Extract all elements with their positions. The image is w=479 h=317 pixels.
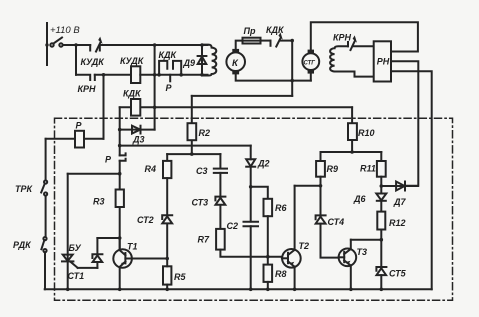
wire branch vertical to KRN contact row xyxy=(75,45,77,75)
svg-text:R12: R12 xyxy=(389,218,406,228)
inductor coil (K relay coil, right of D9) xyxy=(202,45,216,76)
wire T3 collector to R12 node xyxy=(351,239,381,241)
svg-text:СТ5: СТ5 xyxy=(389,269,407,279)
svg-text:R4: R4 xyxy=(145,164,157,174)
svg-text:Р: Р xyxy=(76,121,83,131)
svg-text:Т3: Т3 xyxy=(357,247,368,257)
wire R10 bottom to R9 and R11 xyxy=(321,151,382,153)
zener ST3 xyxy=(216,198,226,205)
zener ST5 xyxy=(377,268,387,275)
wire from switch to contact column xyxy=(63,44,90,46)
wire to BU xyxy=(68,173,120,175)
wire fuse to KDK contact xyxy=(261,40,271,42)
svg-text:ТРК: ТРК xyxy=(15,184,34,194)
svg-text:+110 В: +110 В xyxy=(50,25,80,36)
capacitor C3 branch xyxy=(219,154,221,168)
junction dots second row xyxy=(102,73,106,77)
resistor R4 branch xyxy=(166,154,168,161)
svg-text:Д2: Д2 xyxy=(257,159,270,169)
svg-text:R3: R3 xyxy=(93,197,105,207)
relay coil KRN (inductor with left bumps) xyxy=(330,46,348,71)
svg-text:РДК: РДК xyxy=(13,240,32,250)
contact KDK (near motor, with arrow) xyxy=(270,41,272,46)
contact KDK/P (double hook contact) xyxy=(159,61,167,75)
vertical chain x=119.7 (node, P contact, R3) xyxy=(119,107,121,155)
wire D2 node to R6 xyxy=(251,187,268,199)
generator STG circle xyxy=(302,53,319,70)
diode D9 (vertical, pointing up) xyxy=(201,45,203,75)
svg-text:СТ3: СТ3 xyxy=(192,198,209,208)
wire ST1 top to T1 collector node xyxy=(97,237,119,239)
diode D7 wire xyxy=(381,185,418,187)
relay box RN xyxy=(374,41,391,81)
zener ST4 xyxy=(320,186,322,216)
wire ST4 to T3 base xyxy=(321,224,339,258)
contact P (in vertical wire) xyxy=(120,153,126,155)
wire motor K bottom to STG bottom xyxy=(236,74,311,80)
equipment boundary frame (dash-dot) xyxy=(55,118,453,300)
wire between TRK and RDK xyxy=(45,196,47,237)
resistor R5 xyxy=(163,266,171,284)
wire RDK down to bottom bus xyxy=(44,252,46,289)
resistor R6 xyxy=(264,199,273,216)
svg-text:СТ1: СТ1 xyxy=(68,271,85,281)
wire T2 collector to R9/ST4 node xyxy=(295,185,321,187)
RN box output stub bottom xyxy=(391,71,432,289)
svg-text:R2: R2 xyxy=(199,128,211,138)
relay coil KDK (on long wire) xyxy=(131,99,140,116)
resistor R12 xyxy=(377,212,385,230)
svg-text:R8: R8 xyxy=(275,269,287,279)
svg-text:КРН: КРН xyxy=(78,84,97,94)
resistor R9 xyxy=(320,152,322,161)
svg-text:КДК: КДК xyxy=(123,89,142,99)
wire coil bottom continues xyxy=(335,71,355,73)
contact KRN (with arrow) xyxy=(347,42,349,46)
transistor T1 xyxy=(113,249,132,268)
wire through relay coil P xyxy=(46,138,104,140)
wire W2 to diode D2 xyxy=(120,145,251,147)
switch TRK xyxy=(44,180,47,183)
resistor R8 xyxy=(264,265,273,282)
diode D7 xyxy=(396,182,405,191)
svg-text:КУДК: КУДК xyxy=(81,57,106,67)
relay coil KUDK (on wire) xyxy=(131,66,140,83)
wire R2 top run xyxy=(192,95,292,97)
wire W1 R4 to C3 xyxy=(167,153,220,155)
svg-text:КУДК: КУДК xyxy=(120,56,145,66)
relay coil P xyxy=(75,131,84,148)
capacitor C2 xyxy=(244,221,259,223)
resistor R7 xyxy=(216,229,225,250)
wire second row continues xyxy=(140,74,207,76)
wire coil bottom to RN box xyxy=(355,72,374,77)
wire vertical x=292.2 down to R2 top wire xyxy=(291,41,293,96)
svg-text:РН: РН xyxy=(377,57,390,67)
svg-text:БУ: БУ xyxy=(69,243,82,253)
vertical wire x=154.6 from top row down to relay wire xyxy=(154,45,156,130)
resistor R3 xyxy=(119,174,121,190)
resistor R10 branch xyxy=(351,107,353,123)
svg-text:СТ4: СТ4 xyxy=(328,217,345,227)
svg-text:R7: R7 xyxy=(198,235,210,245)
transistor T2 xyxy=(282,249,301,268)
svg-text:Р: Р xyxy=(166,83,173,93)
STG brushes xyxy=(308,50,314,54)
zener ST1 xyxy=(96,262,98,268)
svg-text:СТ2: СТ2 xyxy=(137,215,154,225)
svg-text:R6: R6 xyxy=(275,203,287,213)
diode D3 wire (parallel to KDK coil) xyxy=(120,129,155,131)
svg-text:R9: R9 xyxy=(327,164,339,174)
svg-text:R11: R11 xyxy=(360,164,376,174)
svg-text:Пр: Пр xyxy=(244,26,256,36)
wire left drop to TRK switch xyxy=(45,139,47,181)
wire R7 bottom to T2 base xyxy=(220,250,282,257)
svg-text:КДК: КДК xyxy=(159,50,178,60)
svg-text:С3: С3 xyxy=(196,166,208,176)
transistor T3 xyxy=(339,248,357,266)
svg-text:R10: R10 xyxy=(358,128,375,138)
svg-text:Д3: Д3 xyxy=(132,135,145,145)
svg-text:R5: R5 xyxy=(174,272,186,282)
wire BU gate to ST1 xyxy=(78,267,98,269)
svg-text:Т1: Т1 xyxy=(127,242,138,252)
diode D2 branch xyxy=(250,146,252,160)
wire STG top loop to RN box xyxy=(311,22,418,51)
zener ST2 xyxy=(162,216,172,223)
svg-text:Д9: Д9 xyxy=(183,58,196,68)
wire STG bottom xyxy=(310,74,312,81)
thyristor BU xyxy=(63,255,73,261)
wire second row xyxy=(95,74,131,76)
svg-text:Р: Р xyxy=(105,155,112,165)
fuse Pr xyxy=(243,38,261,44)
resistor R2 branch xyxy=(191,96,193,154)
RN box output stub middle xyxy=(391,61,418,186)
svg-text:Д6: Д6 xyxy=(353,194,366,204)
motor K circle xyxy=(226,52,245,71)
svg-text:Т2: Т2 xyxy=(299,241,310,251)
long control wire y=107.3 xyxy=(120,106,352,108)
contact KUDK (top row, with arrow) xyxy=(89,45,91,51)
svg-text:КДК: КДК xyxy=(266,25,285,35)
diode D6 xyxy=(376,194,386,201)
diode D3 xyxy=(132,126,140,134)
vertical wire BU branch xyxy=(67,174,69,290)
wire motor K top to fuse xyxy=(236,41,243,49)
resistor R11 xyxy=(380,152,382,161)
svg-text:С2: С2 xyxy=(227,221,239,231)
switch RDK xyxy=(43,237,46,240)
wire top row to D9 and coil xyxy=(100,44,208,46)
vertical wire KRN junction down to relay P xyxy=(103,75,105,139)
bottom bus wire xyxy=(45,288,432,290)
node +110V supply rail xyxy=(46,23,48,65)
svg-text:Д7: Д7 xyxy=(393,197,406,207)
switch on +110V rail xyxy=(45,43,48,46)
motor K brushes xyxy=(232,49,239,53)
svg-text:СТГ: СТГ xyxy=(304,61,316,67)
contact KRN (second row) xyxy=(76,75,90,80)
